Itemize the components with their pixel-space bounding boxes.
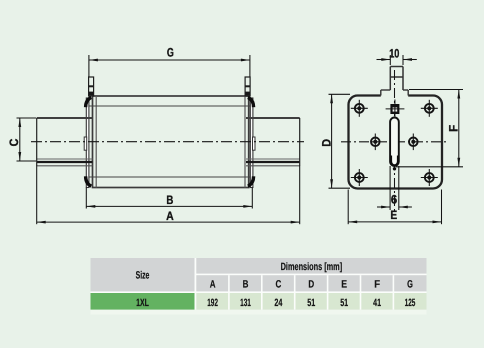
svg-text:C: C [7, 138, 21, 146]
middle hole right [409, 134, 418, 151]
svg-text:Size: Size [136, 270, 150, 282]
svg-text:F: F [447, 125, 461, 132]
svg-text:24: 24 [274, 297, 282, 309]
svg-text:A: A [210, 278, 216, 290]
right blade [246, 118, 300, 166]
svg-text:E: E [390, 208, 397, 222]
dimension E extension lines [348, 190, 441, 225]
corner rivet top-left [351, 100, 368, 117]
raised top center step [381, 90, 408, 96]
svg-text:131: 131 [240, 297, 251, 309]
right contact end plate [250, 98, 253, 188]
horizontal centerline [31, 141, 304, 143]
left contact end plate [86, 98, 89, 188]
svg-text:G: G [407, 278, 413, 290]
svg-text:A: A [166, 209, 174, 223]
dimension G arrows [89, 59, 98, 62]
dimension G extension lines [89, 55, 250, 77]
dimensions header row [196, 258, 426, 274]
1XL row cell [91, 293, 195, 310]
dimension F extension lines [396, 90, 463, 167]
dimension D line [331, 94, 333, 188]
grip lug hook bottom left [86, 176, 92, 186]
corner rivet top-right [421, 100, 438, 117]
svg-text:Dimensions [mm]: Dimensions [mm] [281, 261, 343, 273]
dimension E arrows [348, 221, 357, 224]
dimension F line [458, 90, 460, 167]
dimension B arrows [86, 205, 95, 208]
dimension 6 extension lines (slot sides) [390, 166, 399, 210]
size header cell [91, 258, 195, 291]
dimension D extension lines [329, 94, 351, 188]
dimension E line [348, 221, 441, 223]
top right microswitch tab [245, 77, 250, 96]
svg-text:6: 6 [391, 192, 398, 206]
dimension 10 line + arrows (outside) [377, 59, 417, 61]
svg-text:G: G [167, 46, 174, 60]
svg-text:10: 10 [389, 46, 399, 60]
right blade washer notch [253, 137, 256, 150]
dimension B line [86, 205, 252, 207]
dimension 6 line + arrows (outside) [377, 206, 412, 208]
fuse body label band lines (lug attachment lines) [86, 106, 252, 177]
svg-text:D: D [308, 278, 314, 290]
svg-text:D: D [319, 139, 333, 147]
table background (white separators) [91, 258, 427, 310]
dimension C extension lines [17, 118, 37, 161]
fuse body inner cap lines [96, 96, 245, 188]
svg-text:B: B [243, 278, 249, 290]
table bottom light strip [91, 310, 427, 315]
dimension D arrows [330, 94, 333, 103]
corner rivet bottom-left [351, 169, 368, 186]
fuse body outline [93, 96, 249, 188]
left blade washer notch [84, 137, 87, 150]
top left microswitch tab [89, 77, 94, 96]
dimension 10 extension lines [390, 55, 403, 65]
dimension C arrows [18, 118, 21, 127]
svg-text:C: C [276, 278, 282, 290]
column header cells A-G [196, 275, 426, 291]
dimension G line [89, 59, 250, 61]
svg-text:B: B [166, 193, 173, 207]
center blade slot [390, 118, 399, 167]
left blade [37, 118, 93, 166]
svg-text:1XL: 1XL [136, 297, 149, 309]
svg-text:E: E [341, 278, 347, 290]
striker indicator (black square) [386, 100, 405, 118]
horizontal centerline [341, 141, 449, 143]
dimension A line [37, 221, 300, 223]
svg-text:125: 125 [405, 297, 416, 309]
value row band [196, 293, 426, 310]
middle hole left [371, 134, 380, 151]
grip lug hook top left [86, 97, 92, 107]
svg-text:192: 192 [207, 297, 218, 309]
grip lug hook top right [248, 97, 254, 107]
dimension B extension lines (from contact plates) [86, 188, 252, 209]
top blade tab [390, 67, 403, 91]
white column separators [229, 275, 394, 309]
dimension A extension lines (blade ends) [37, 166, 300, 225]
corner rivet bottom-right [421, 169, 438, 186]
svg-text:51: 51 [340, 297, 348, 309]
dimension F arrows [457, 90, 460, 99]
dimension A arrows [37, 221, 46, 224]
svg-text:F: F [374, 278, 380, 290]
dimension C line [19, 118, 21, 161]
mounting plate [349, 96, 443, 189]
blade tip seen in slot (bold bottom cap) [391, 156, 398, 166]
svg-text:41: 41 [373, 297, 381, 309]
vertical centerline [394, 70, 396, 211]
svg-text:51: 51 [307, 297, 315, 309]
grip lug hook bottom right [248, 176, 254, 186]
